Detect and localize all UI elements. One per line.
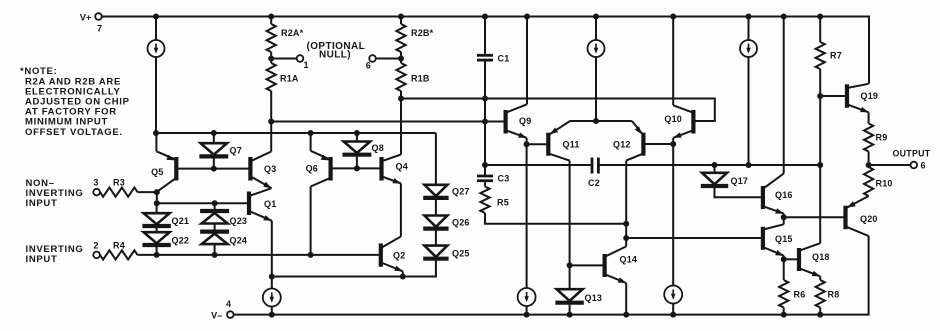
wire Q20 base line [784, 216, 846, 218]
wire Q6 collector drop [310, 187, 312, 255]
node Q16e-Q20b [781, 214, 787, 220]
svg-text:6: 6 [366, 61, 371, 71]
node Q22 bottom [154, 252, 160, 258]
svg-text:R6: R6 [794, 290, 806, 300]
node C1-Q9 base line [482, 119, 488, 125]
wire Q18 collector up [819, 165, 821, 243]
node clamp top left [154, 200, 160, 206]
node rail-Q9 [524, 14, 530, 20]
wire inverting line [138, 254, 379, 256]
wire Q12 collector drop [625, 161, 627, 247]
svg-text:R5: R5 [497, 198, 509, 208]
node Q15e-Q18b [781, 256, 787, 262]
wire Q5 emitter riser [155, 133, 157, 151]
current source I1 [148, 40, 165, 57]
svg-text:*NOTE:: *NOTE: [20, 66, 57, 77]
svg-text:Q24: Q24 [230, 236, 248, 246]
node rail-R2A [268, 14, 274, 20]
svg-text:Q25: Q25 [452, 249, 470, 259]
node null B [398, 56, 404, 62]
transistor Q4 [382, 155, 408, 184]
svg-text:Q26: Q26 [452, 218, 470, 228]
node rail-CS3 [746, 14, 752, 20]
transistor Q9 [506, 104, 532, 138]
node rail-R2B [398, 14, 404, 20]
svg-text:R7: R7 [830, 51, 842, 61]
node rail-CS1 [153, 14, 159, 20]
wire I6 to rail [672, 303, 674, 315]
wire rail to Q16 collector [783, 17, 785, 174]
svg-text:Q5: Q5 [151, 167, 163, 177]
resistor R1A [267, 59, 299, 92]
node comp-R7 [817, 162, 823, 168]
node Q14 collector line [623, 235, 629, 241]
svg-text:Q1: Q1 [264, 199, 276, 209]
wire Q9 emitter down [526, 138, 528, 144]
wire R7 to Q19 base [819, 69, 821, 96]
diode Q23 [200, 203, 247, 226]
node Q8 cathode-bases [354, 165, 360, 171]
wire rail to I2 [595, 17, 597, 41]
diode Q24 [200, 224, 247, 255]
svg-text:OUTPUT: OUTPUT [893, 149, 931, 159]
svg-text:C3: C3 [498, 174, 510, 184]
wire Q15 base line [626, 237, 761, 239]
node rail-I5 [524, 312, 530, 318]
svg-text:Q17: Q17 [731, 176, 749, 186]
resistor R5 [480, 182, 509, 213]
svg-text:Q21: Q21 [172, 216, 190, 226]
node Q7 top [211, 130, 217, 136]
wire null A to pin 1 [271, 58, 297, 60]
node Q24 bottom [212, 252, 218, 258]
wire null B to pin 6 [376, 58, 401, 60]
node Q1 emitter tail [269, 274, 275, 280]
svg-text:3: 3 [93, 177, 98, 187]
wire Q5-Q3 base line [176, 168, 250, 170]
svg-text:Q7: Q7 [230, 146, 242, 156]
transistor Q11 [548, 121, 579, 161]
wire Q1 base line [157, 202, 247, 204]
input terminal pin 3 [93, 177, 100, 195]
capacitor C2 [588, 158, 600, 189]
wire Q1 emitter down [271, 221, 273, 277]
wire Q10 emitter column down [672, 144, 674, 286]
svg-text:R2A*: R2A* [281, 28, 304, 38]
wire Q14 emitter to rail [625, 283, 627, 315]
svg-text:R1A: R1A [280, 74, 299, 84]
node comp A [482, 162, 488, 168]
node rail-Q13 [567, 312, 573, 318]
wire Q6 emitter riser [310, 133, 312, 151]
resistor R10 [864, 167, 893, 196]
current source I3 [740, 40, 757, 57]
node rail-Q10 [670, 14, 676, 20]
wire V+ rail [102, 17, 869, 84]
svg-text:R4: R4 [113, 240, 125, 250]
node comp-Q17 [712, 162, 718, 168]
wire Q9 base line [271, 121, 503, 123]
svg-text:7: 7 [97, 24, 102, 34]
svg-text:R10: R10 [876, 179, 893, 189]
node comp-I3 [746, 162, 752, 168]
wire rail to R2B [400, 17, 402, 25]
node Q11-Q12 tail [593, 118, 599, 124]
svg-text:Q9: Q9 [519, 116, 531, 126]
svg-text:Q4: Q4 [396, 162, 408, 172]
svg-text:Q16: Q16 [775, 190, 793, 200]
svg-text:Q8: Q8 [372, 143, 384, 153]
transistor Q18 [799, 243, 830, 276]
capacitor C3 [477, 165, 509, 184]
diode Q17 [701, 165, 761, 197]
svg-text:6: 6 [921, 161, 926, 171]
node rail-Q14e [623, 312, 629, 318]
svg-text:Q13: Q13 [585, 293, 603, 303]
svg-text:Q12: Q12 [613, 140, 631, 150]
transistor Q16 [763, 174, 793, 214]
node comp B R5 [623, 221, 629, 227]
V+ power terminal (pin 7) [80, 13, 102, 34]
node rail-R6 [781, 312, 787, 318]
transistor Q2 [381, 237, 406, 272]
svg-text:R9: R9 [876, 133, 888, 143]
svg-text:R1B: R1B [411, 74, 430, 84]
wire Q16e to Q15c [783, 217, 785, 224]
wire C1 node down to comp node A [484, 99, 486, 166]
svg-text:Q3: Q3 [264, 164, 276, 174]
current sink I4 [263, 289, 281, 307]
node rail-C1 [482, 14, 488, 20]
svg-text:Q19: Q19 [861, 91, 879, 101]
node rail-Q16 [781, 14, 787, 20]
svg-text:4: 4 [226, 299, 231, 309]
node noninv base [154, 189, 160, 195]
wire Q10 emitter down [672, 138, 674, 144]
svg-text:2: 2 [93, 240, 98, 250]
transistor Q14 [605, 246, 638, 283]
wire I5 to rail [526, 306, 528, 315]
wire node to Q3 collector [270, 122, 272, 152]
svg-text:C1: C1 [498, 54, 510, 64]
svg-text:V–: V– [211, 310, 222, 320]
node null A [268, 56, 274, 62]
wire Q18 base line [784, 258, 799, 260]
transistor Q20 [846, 196, 878, 236]
noninverting input label [26, 178, 84, 209]
capacitor C1 [477, 54, 509, 64]
svg-text:1: 1 [304, 60, 309, 70]
wire R1B down to Q4 collector [400, 91, 402, 155]
node Q11c-Q14 base [567, 262, 573, 268]
node Q10e-Q12b [670, 141, 676, 147]
node rail-R8 [817, 312, 823, 318]
node Q6 collector join [308, 252, 314, 258]
wire Q2 emitter down [402, 271, 404, 276]
inverting input label [26, 244, 84, 265]
transistor Q10 [664, 105, 693, 138]
null terminal pin 1 [297, 55, 309, 70]
svg-text:R3: R3 [113, 177, 125, 187]
wire Q11 collector drop [569, 161, 571, 266]
wire comp line A [485, 164, 592, 166]
transistor Q12 [613, 121, 643, 161]
resistor R8 [816, 276, 840, 314]
wire Q19 base line [820, 95, 847, 97]
svg-text:Q14: Q14 [620, 255, 638, 265]
diode Q21 [142, 203, 189, 226]
resistor R1B [396, 59, 430, 92]
note text block [20, 66, 130, 138]
wire Q12 base line [643, 143, 673, 145]
svg-text:Q11: Q11 [563, 140, 580, 150]
wire tail line y=133 [156, 132, 436, 134]
wire I1 to tail node [155, 57, 157, 133]
resistor R6 [779, 259, 805, 314]
resistor R7 [816, 17, 842, 70]
resistor R2B [396, 24, 433, 52]
wire tail corner down to Q27 [435, 133, 437, 184]
diode Q25 [423, 229, 469, 259]
svg-text:Q27: Q27 [452, 187, 470, 197]
svg-text:R8: R8 [828, 290, 840, 300]
wire C1 to node [484, 62, 486, 99]
svg-text:OFFSET VOLTAGE.: OFFSET VOLTAGE. [25, 127, 123, 138]
resistor R4 [100, 240, 138, 259]
output terminal pin 6 [893, 149, 931, 171]
node Q2 emitter tail [400, 274, 406, 280]
svg-text:NULL): NULL) [319, 50, 351, 61]
wire Q19 base node down [819, 96, 821, 165]
wire Q6-Q4 base line [331, 167, 382, 169]
node C1 bottom [482, 96, 488, 102]
node R1A-Q3 collector [268, 119, 274, 125]
svg-text:R2B*: R2B* [411, 28, 434, 38]
optional null text [306, 41, 365, 61]
wire Q15e node [783, 256, 785, 260]
diode Q7 [199, 133, 242, 169]
wire comp line B [599, 164, 820, 166]
diode Q27 [423, 185, 469, 198]
wire Q9 emitter column down [526, 144, 528, 288]
wire R5 to Q12 collector node [485, 213, 626, 224]
wire I2 to Q11/Q12 tail [595, 57, 597, 121]
node output R9-R10 [866, 162, 872, 168]
wire Q10 base wrap line [401, 99, 715, 122]
node Q8 top [354, 130, 360, 136]
wire tail to sink I4 [271, 277, 273, 290]
svg-text:V+: V+ [80, 13, 92, 23]
wire R3 to input node [138, 191, 157, 193]
wire Q11-Q12 tail line [570, 120, 632, 122]
wire output line [869, 164, 911, 166]
transistor Q5 [151, 151, 176, 192]
svg-text:INPUT: INPUT [26, 254, 58, 265]
transistor Q6 [306, 151, 331, 187]
resistor R3 [100, 177, 138, 196]
current source I2 [588, 40, 605, 57]
svg-text:Q22: Q22 [172, 236, 190, 246]
wire rail to Q9 collector [526, 17, 528, 105]
svg-text:Q10: Q10 [664, 114, 682, 124]
wire first-stage tail line [272, 259, 436, 277]
wire I4 to V- rail [271, 306, 273, 315]
node Q7 cathode-bases [211, 166, 217, 172]
diode Q26 [423, 198, 469, 229]
wire R2B to null node [400, 52, 402, 59]
transistor Q19 [847, 84, 878, 113]
wire Q14 base line [570, 264, 605, 266]
resistor R2A [267, 24, 304, 52]
node Q9e-Q11b [524, 141, 530, 147]
node rail-CS2 [593, 14, 599, 20]
svg-text:C2: C2 [588, 178, 600, 188]
svg-text:Q20: Q20 [860, 214, 878, 224]
null terminal pin 6 [366, 55, 376, 70]
wire R1A to node A [270, 91, 272, 122]
wire rail to Q10 collector [672, 17, 674, 106]
node clamp top right [212, 200, 218, 206]
svg-text:INPUT: INPUT [26, 198, 58, 209]
wire Q4 emitter to Q2 collector [400, 184, 402, 237]
wire rail to R2A [270, 17, 272, 25]
V- power terminal (pin 4) [211, 299, 234, 320]
wire rail to C1 [484, 17, 486, 54]
transistor Q15 [763, 224, 793, 255]
node rail-I6 [670, 312, 676, 318]
transistor Q3 [250, 152, 276, 189]
resistor R9 [864, 112, 887, 165]
current sink I5 [518, 288, 536, 306]
svg-text:Q2: Q2 [393, 251, 405, 261]
current sink I6 [664, 286, 682, 304]
input terminal pin 2 [93, 240, 100, 258]
wire rail to I1 [155, 17, 157, 41]
wire V- rail [234, 236, 869, 315]
wire noninv node down [156, 192, 158, 203]
svg-text:Q23: Q23 [230, 216, 248, 226]
svg-text:Q15: Q15 [775, 234, 793, 244]
svg-text:Q18: Q18 [812, 252, 830, 262]
wire I3 to comp line [748, 57, 750, 165]
diode Q22 [142, 227, 189, 255]
node Q19 base [817, 93, 823, 99]
node R1B-Q10 base line [398, 96, 404, 102]
wire rail to I3 [748, 17, 750, 41]
node rail-R7 [817, 14, 823, 20]
diode Q8 [342, 133, 383, 168]
wire R2A to null node [270, 52, 272, 59]
node rail-I4 [269, 312, 275, 318]
transistor Q1 [249, 188, 276, 221]
svg-text:Q6: Q6 [306, 164, 318, 174]
diode Q13 [555, 265, 602, 314]
node Q6 emitter top [308, 130, 314, 136]
node input-stage tail [153, 130, 159, 136]
wire Q11 base line [527, 143, 549, 145]
wire Q16e node [783, 214, 785, 218]
